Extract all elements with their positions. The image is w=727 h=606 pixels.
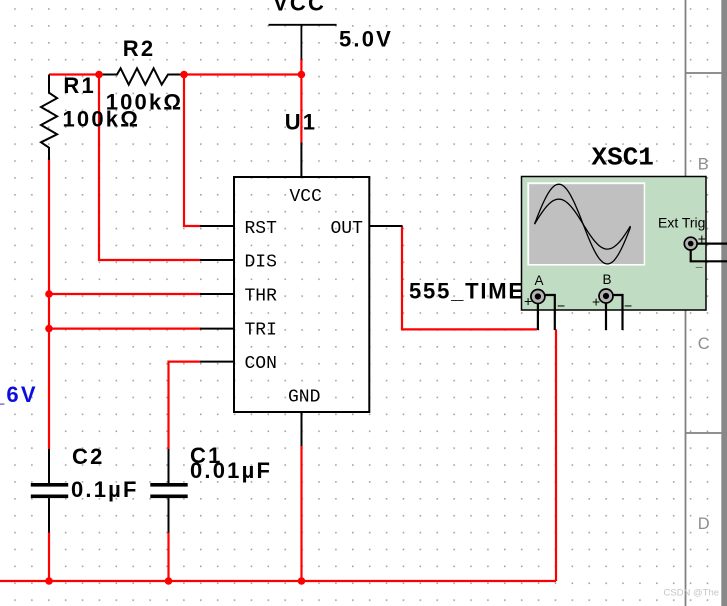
oscilloscope screen	[529, 184, 644, 264]
pin RST lead	[200, 225, 234, 227]
wire DIS net vertical	[99, 75, 201, 261]
capacitor C2	[48, 449, 50, 483]
wire TRI branch	[49, 328, 201, 330]
svg-text:GND: GND	[288, 388, 320, 408]
junction node rail GND	[298, 577, 306, 585]
svg-text:0.01µF: 0.01µF	[190, 458, 272, 483]
scope terminal A wire +	[537, 297, 539, 331]
wire R1 top corner to R2 left	[49, 73, 103, 75]
svg-text:VCC: VCC	[290, 187, 323, 207]
wire ground rail	[0, 580, 556, 582]
svg-text:−: −	[624, 297, 632, 313]
svg-text:DIS: DIS	[245, 253, 277, 273]
svg-text:U1: U1	[285, 109, 318, 134]
svg-text:C2: C2	[72, 444, 105, 469]
wire VCC top to R2 rail	[184, 73, 301, 75]
capacitor C1	[168, 449, 170, 483]
junction node VCC	[298, 71, 306, 79]
svg-text:−: −	[557, 297, 565, 313]
svg-text:RST: RST	[245, 219, 278, 239]
svg-text:VCC: VCC	[273, 0, 326, 16]
scope connector A	[531, 290, 545, 304]
oscilloscope XSC1 body	[522, 177, 707, 311]
scope waveform channel B	[535, 199, 631, 249]
svg-text:THR: THR	[245, 287, 278, 307]
wire left rail R1 to C2	[48, 158, 50, 450]
svg-text:+: +	[524, 293, 532, 309]
oscilloscope screen frame	[527, 182, 645, 265]
scope terminal B wire +	[605, 296, 607, 330]
svg-text:+: +	[698, 231, 706, 247]
svg-text:C: C	[698, 335, 710, 353]
VCC power symbol	[269, 24, 337, 26]
junction node THR	[45, 290, 53, 298]
scope waveform channel A	[535, 184, 631, 264]
svg-text:5.0V: 5.0V	[339, 27, 393, 52]
sheet border tick top	[686, 72, 727, 74]
pin VCC lead	[300, 143, 302, 178]
svg-text:100kΩ: 100kΩ	[106, 89, 184, 114]
svg-text:XSC1: XSC1	[592, 142, 654, 172]
svg-text:R1: R1	[63, 73, 96, 98]
junction node rail C1	[165, 577, 173, 585]
svg-text:−: −	[695, 259, 703, 275]
wire scope A- to ground rail	[555, 329, 557, 581]
junction node R2/RST	[180, 71, 188, 79]
svg-text:R2: R2	[123, 36, 156, 61]
sheet border tick bottom	[686, 432, 727, 434]
junction node TRI	[45, 325, 53, 333]
wire VCC vertical	[300, 59, 302, 143]
wire THR branch	[49, 293, 201, 295]
wire C2 bottom to ground rail	[48, 532, 50, 581]
svg-text:TRI: TRI	[245, 321, 277, 341]
wire CON net to C1	[169, 362, 201, 449]
resistor R2	[103, 68, 181, 84]
wire GND pin to rail	[300, 446, 302, 581]
pin OUT lead	[369, 225, 402, 227]
scope terminal Ext Trig wire -	[691, 248, 727, 261]
svg-text:0.1µF: 0.1µF	[71, 477, 139, 502]
op U1 555 timer box	[234, 177, 369, 412]
sheet border zone line	[685, 0, 687, 606]
pin THR lead	[200, 293, 234, 295]
scope terminal Ext Trig wire +	[692, 243, 727, 245]
resistor R1	[41, 75, 57, 161]
svg-text:B: B	[698, 156, 709, 174]
pin DIS lead	[200, 259, 234, 261]
scope terminal B wire -	[611, 295, 623, 330]
pin CON lead	[200, 361, 234, 363]
junction node R1/R2/DIS	[95, 71, 103, 79]
scope terminal A wire -	[543, 295, 555, 330]
svg-text:Ext Trig: Ext Trig	[658, 215, 705, 231]
pin TRI lead	[200, 328, 234, 330]
svg-text:A: A	[535, 273, 544, 288]
svg-text:OUT: OUT	[331, 219, 364, 239]
svg-text:CSDN @The: CSDN @The	[664, 588, 720, 599]
wire OUT net	[402, 226, 537, 329]
svg-text:+: +	[592, 294, 600, 310]
svg-text:B: B	[603, 272, 612, 287]
wire C1 bottom to ground rail	[167, 532, 169, 581]
scope connector B	[599, 289, 613, 303]
window edge strip	[721, 0, 727, 606]
scope connector Ext Trig	[684, 237, 697, 250]
junction node rail C2	[45, 577, 53, 585]
svg-text:D: D	[698, 515, 710, 533]
pin GND lead	[301, 412, 303, 446]
wire RST net vertical	[184, 75, 201, 227]
svg-text:CON: CON	[245, 354, 277, 374]
svg-text:_6V: _6V	[0, 382, 38, 407]
